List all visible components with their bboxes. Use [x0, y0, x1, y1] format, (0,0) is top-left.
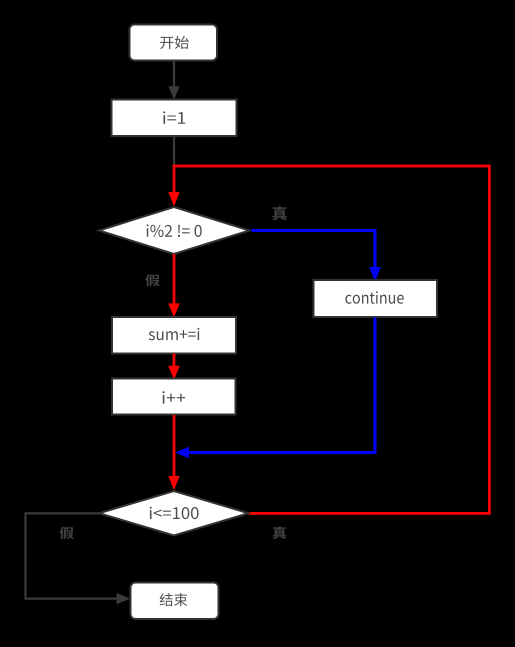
process box: i++	[112, 379, 236, 415]
decision diamond: i%2 != 0	[99, 207, 250, 254]
label 假 (false) on i%2 branch	[145, 274, 160, 286]
label 真 (true) on i<=100 branch	[272, 526, 286, 539]
text label: i<=100	[150, 507, 199, 520]
text label: sum+=i	[149, 328, 200, 341]
text label: continue	[345, 291, 403, 304]
decision diamond: i<=100	[99, 491, 249, 536]
blue wire: continue -> junction before i<=100	[189, 318, 375, 453]
text label: 结束	[160, 593, 188, 606]
text label: i=1	[163, 111, 185, 123]
red wire: sum+=i -> i++	[173, 354, 176, 368]
gray wire: i<=100 false -> end box	[26, 513, 118, 598]
terminal box: 开始 (start)	[130, 25, 218, 61]
text label: i++	[163, 391, 186, 403]
wire: i=1 down to junction	[173, 137, 175, 167]
text label: i%2 != 0	[147, 224, 202, 237]
label 真 (true) on i%2 branch	[272, 206, 287, 220]
process box: sum+=i	[112, 317, 236, 354]
red loop wire: i<=100 true -> back to i%2 diamond	[174, 166, 489, 513]
label 假 (false) on i<=100 branch	[60, 527, 74, 539]
wire: start -> i=1	[173, 61, 175, 87]
red wire: i++ -> i<=100	[173, 415, 176, 477]
process box: continue	[314, 280, 438, 317]
terminal box: 结束 (end)	[131, 583, 219, 620]
process box: i=1	[112, 100, 237, 137]
text label: 开始	[160, 36, 189, 49]
blue wire: i%2 true -> continue	[252, 231, 376, 269]
red wire: i%2 false -> sum+=i	[173, 254, 176, 305]
